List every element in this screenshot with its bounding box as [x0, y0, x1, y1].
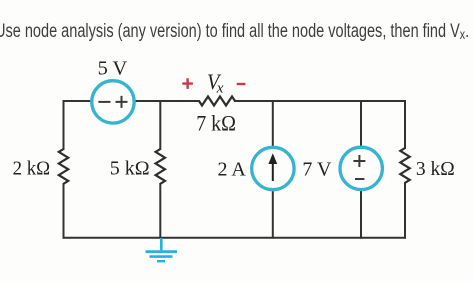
svg-text:7 V: 7 V	[302, 159, 332, 181]
wire 7V branch top lead	[360, 101, 362, 147]
svg-text:5 V: 5 V	[98, 58, 128, 80]
wire 2A branch bottom lead	[272, 191, 274, 238]
wire top middle segment	[135, 100, 199, 102]
svg-text:x: x	[216, 81, 224, 97]
wire 5k branch top lead	[159, 101, 161, 149]
svg-text:3 kΩ: 3 kΩ	[416, 158, 455, 180]
wire top right segment	[235, 100, 405, 102]
voltage source V1 5V circle	[92, 81, 134, 123]
wire right vertical bottom lead	[404, 183, 406, 238]
voltage source V2 plus sign	[353, 155, 365, 167]
Vx plus polarity mark (red)	[182, 78, 193, 89]
current source I1 arrow shaft	[272, 164, 274, 182]
current source I1 arrow head	[268, 153, 277, 164]
wire 2A branch top lead	[272, 101, 274, 147]
svg-text:7 kΩ: 7 kΩ	[196, 111, 236, 136]
wire 5k branch bottom lead	[159, 184, 161, 238]
voltage source V2 minus sign	[355, 178, 364, 180]
voltage source V2 7V circle	[340, 147, 382, 189]
wire right vertical top lead	[404, 101, 406, 148]
wire left vertical top lead	[63, 101, 65, 149]
resistor R 2k zigzag	[59, 149, 68, 184]
wire 7V branch bottom lead	[360, 191, 362, 238]
resistor R 3k zigzag	[400, 148, 409, 183]
voltage source V1 plus sign	[116, 96, 128, 108]
svg-text:5 kΩ: 5 kΩ	[110, 158, 150, 180]
resistor R 7k zigzag (horizontal)	[199, 97, 235, 106]
Vx minus polarity mark (red)	[237, 83, 246, 85]
ground symbol	[146, 238, 178, 261]
wire left vertical bottom lead	[63, 184, 65, 238]
svg-text:2 A: 2 A	[217, 159, 246, 181]
voltage source V1 minus sign	[98, 101, 110, 103]
resistor R 5k zigzag	[156, 149, 165, 184]
problem statement text	[0, 21, 469, 43]
svg-text:2 kΩ: 2 kΩ	[13, 158, 50, 180]
wire bottom	[64, 237, 406, 239]
wire top-left segment	[64, 100, 92, 102]
current source I1 2A circle	[252, 147, 294, 189]
